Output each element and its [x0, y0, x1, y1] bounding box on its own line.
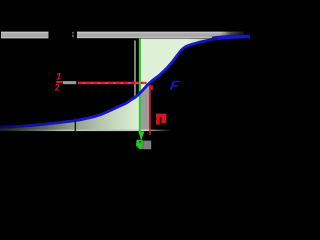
svg-text:1: 1: [56, 72, 61, 83]
svg-text:2: 2: [55, 83, 60, 94]
svg-text:F: F: [168, 77, 183, 92]
